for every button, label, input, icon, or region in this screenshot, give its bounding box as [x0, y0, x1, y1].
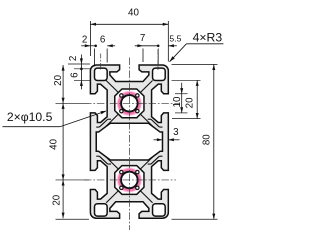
svg-text:20: 20: [53, 74, 64, 85]
svg-text:3: 3: [173, 127, 179, 138]
svg-text:80: 80: [202, 134, 213, 145]
svg-text:6: 6: [69, 72, 80, 78]
svg-text:2: 2: [68, 56, 79, 61]
svg-text:2×φ10.5: 2×φ10.5: [7, 110, 53, 124]
svg-text:4×R3: 4×R3: [193, 30, 223, 44]
svg-text:40: 40: [49, 138, 60, 149]
svg-text:6: 6: [100, 34, 106, 45]
svg-text:20: 20: [52, 194, 63, 205]
svg-text:10: 10: [172, 96, 183, 107]
svg-text:2: 2: [82, 34, 87, 45]
svg-text:40: 40: [128, 7, 139, 18]
svg-text:7: 7: [140, 33, 145, 44]
svg-text:20: 20: [185, 97, 196, 108]
svg-text:5.5: 5.5: [169, 34, 181, 44]
